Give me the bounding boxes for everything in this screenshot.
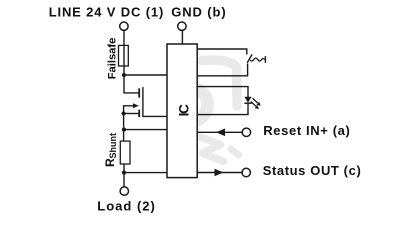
LED light arrow 1: [253, 98, 258, 103]
transistor Q1 MOSFET drain bar: [138, 88, 140, 97]
wire junction A down to MOSFET drain lead: [124, 75, 139, 93]
node source junction: [122, 111, 126, 115]
transistor Q1 MOSFET body arrow: [133, 103, 139, 108]
svg-text:Load (2): Load (2): [97, 198, 156, 213]
terminal Reset IN+ (a): [242, 128, 250, 136]
svg-text:GND (b): GND (b): [171, 5, 226, 20]
fuse F1 Failsafe: [119, 45, 129, 66]
node A junction fuse/IC: [122, 73, 126, 77]
terminal GND (b): [178, 22, 186, 30]
wire Reset IN+ line: [197, 131, 242, 133]
svg-text:IC: IC: [176, 104, 191, 117]
terminal Load (2): [120, 187, 128, 195]
wire shunt top junction to IC left: [124, 129, 167, 131]
thermal breaker end bar: [264, 56, 266, 63]
terminal LINE 24 V DC (1): [120, 22, 128, 30]
svg-text:Status OUT (c): Status OUT (c): [263, 163, 362, 178]
wire junction A to IC left: [124, 74, 167, 76]
wire IC right to thermal breaker top rail: [197, 49, 247, 55]
transistor Q1 MOSFET source bar: [138, 110, 140, 118]
wire shunt bottom to junction and IC left: [123, 164, 125, 187]
node shunt top junction: [122, 128, 126, 132]
op-amp U1 IC box: [167, 44, 197, 178]
wire LED cathode rail back to IC: [197, 103, 248, 114]
arrow Status OUT (pointing right): [215, 169, 224, 177]
wire GND terminal to IC top: [181, 31, 183, 44]
LED light arrow 2: [251, 102, 256, 107]
arrow Reset IN+ (pointing left into IC): [216, 129, 225, 137]
wire IC right to thermal breaker bottom rail: [197, 64, 247, 76]
wire IC right to LED anode rail: [197, 87, 248, 97]
svg-text:Reset IN+ (a): Reset IN+ (a): [263, 123, 350, 138]
svg-text:Failsafe: Failsafe: [106, 38, 118, 80]
wire LINE terminal to fuse and junction A: [123, 31, 125, 75]
thermal breaker squiggle: [250, 58, 265, 61]
wire Status OUT line: [197, 172, 242, 174]
wire source junction down to shunt top junction: [123, 114, 125, 142]
wire MOSFET body lead: [124, 106, 134, 114]
resistor R_Shunt: [120, 141, 130, 164]
svg-text:LINE 24 V DC (1): LINE 24 V DC (1): [49, 5, 164, 20]
wire MOSFET gate to IC left: [143, 87, 167, 116]
svg-text:Shunt: Shunt: [108, 133, 118, 159]
node shunt bottom junction: [122, 171, 126, 175]
terminal Status OUT (c): [242, 168, 250, 176]
watermark: [172, 60, 239, 161]
wire MOSFET source lead: [124, 113, 139, 115]
LED D1: [244, 97, 251, 103]
thermal breaker contact blade: [247, 54, 252, 63]
